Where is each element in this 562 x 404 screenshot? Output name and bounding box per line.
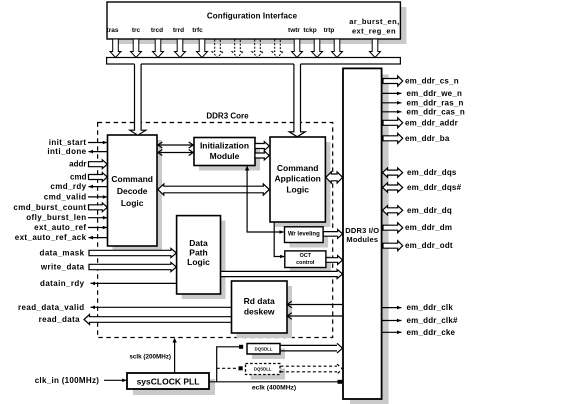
svg-text:Logic: Logic xyxy=(286,184,309,194)
Rd data deskew box xyxy=(232,281,288,333)
svg-text:sysCLOCK PLL: sysCLOCK PLL xyxy=(137,376,200,386)
svg-text:trc: trc xyxy=(132,27,141,34)
svg-text:Wr leveling: Wr leveling xyxy=(288,232,320,238)
svg-text:deskew: deskew xyxy=(244,307,275,317)
arrow em_ddr_dqs xyxy=(383,168,403,177)
svg-text:ext_reg_en: ext_reg_en xyxy=(352,26,396,35)
Wr leveling box shadow xyxy=(290,232,329,248)
svg-text:Initialization: Initialization xyxy=(200,141,249,151)
bus Command Application to DDR3 I/O Modules xyxy=(326,172,343,183)
svg-text:Command: Command xyxy=(111,174,153,184)
svg-text:control: control xyxy=(296,260,315,266)
bus cmd_burst_count xyxy=(89,203,108,212)
arrow em_ddr_cke xyxy=(382,331,402,333)
svg-text:trtp: trtp xyxy=(324,27,335,34)
svg-text:trcd: trcd xyxy=(151,27,163,34)
svg-text:em_ddr_cas_n: em_ddr_cas_n xyxy=(407,107,465,116)
bus wire to Command Decode Logic xyxy=(130,62,146,135)
Configuration Interface box shadow xyxy=(113,7,406,44)
bus DQSDLL to DDR3 I/O Modules xyxy=(281,343,343,353)
wire Command Decode to Initialization Module upper xyxy=(158,144,193,146)
OCT control box xyxy=(285,251,326,268)
svg-text:em_ddr_we_n: em_ddr_we_n xyxy=(407,89,463,98)
bus wire to Command Application Logic xyxy=(289,62,305,137)
svg-text:em_ddr_odt: em_ddr_odt xyxy=(405,241,453,250)
config arrow (solid) #5 xyxy=(197,40,208,58)
config arrow (solid) #2 xyxy=(131,40,142,58)
config arrow (solid) #6 xyxy=(292,40,303,58)
arrow em_ddr_dqs# xyxy=(383,183,403,192)
arrow em_ddr_we_n xyxy=(382,92,402,94)
arrow em_ddr_clk# xyxy=(382,320,402,322)
svg-text:ar_burst_en,: ar_burst_en, xyxy=(349,17,399,26)
svg-text:clk_in (100MHz): clk_in (100MHz) xyxy=(35,376,100,385)
Wr leveling box xyxy=(285,227,324,243)
arrow em_ddr_cas_n xyxy=(382,111,402,113)
read line DDR3 I/O to Rd data deskew upper xyxy=(287,304,343,306)
svg-text:Decode: Decode xyxy=(117,186,148,196)
Rd data deskew box shadow xyxy=(237,286,293,338)
svg-text:em_ddr_ras_n: em_ddr_ras_n xyxy=(407,98,464,107)
svg-text:tckp: tckp xyxy=(303,27,316,34)
svg-text:ofly_burst_len: ofly_burst_len xyxy=(26,213,86,222)
svg-text:Modules: Modules xyxy=(346,235,378,244)
config arrow (solid) #4 xyxy=(175,40,186,58)
DDR3 I/O Modules box shadow xyxy=(350,74,389,404)
svg-text:write_data: write_data xyxy=(40,263,85,272)
bus cmd xyxy=(89,173,108,182)
bus data_mask xyxy=(89,248,176,257)
svg-text:em_ddr_dqs#: em_ddr_dqs# xyxy=(407,183,462,192)
arrow em_ddr_addr xyxy=(383,118,403,128)
configuration bus bar xyxy=(107,58,401,65)
svg-text:DDR3 Core: DDR3 Core xyxy=(206,112,249,121)
svg-text:Module: Module xyxy=(210,151,240,161)
svg-text:data_mask: data_mask xyxy=(40,249,85,258)
config arrow (dashed) #1 xyxy=(212,40,223,58)
svg-text:twtr: twtr xyxy=(288,27,300,34)
Configuration Interface box xyxy=(107,2,400,39)
arrow inti_done xyxy=(89,151,108,153)
svg-text:ext_auto_ref: ext_auto_ref xyxy=(34,223,86,232)
svg-text:datain_rdy: datain_rdy xyxy=(40,279,85,288)
bus write_data xyxy=(89,262,176,271)
svg-text:sclk (200MHz): sclk (200MHz) xyxy=(129,354,171,361)
arrow datain_rdy xyxy=(91,282,177,284)
arrow ext_auto_ref xyxy=(88,227,107,229)
svg-text:DQSDLL: DQSDLL xyxy=(254,367,272,372)
Data Path Logic box shadow xyxy=(182,221,226,299)
wire Command Application to OCT control xyxy=(274,222,284,257)
bus Initialization Module to Command Application upper xyxy=(255,142,269,151)
Command Decode Logic box shadow xyxy=(113,140,163,251)
Command Decode Logic box xyxy=(108,135,158,246)
clock branch dashed wire to DQSDLL 2 xyxy=(217,367,238,369)
bus read_data xyxy=(84,315,231,325)
arrow read_data_valid xyxy=(91,306,232,308)
config arrow (solid) #3 xyxy=(153,40,164,58)
Command Application Logic box shadow xyxy=(275,142,330,227)
svg-text:em_ddr_cs_n: em_ddr_cs_n xyxy=(405,77,459,86)
config arrow (solid) #7 xyxy=(312,40,323,58)
svg-text:inti_done: inti_done xyxy=(47,147,86,156)
svg-text:cmd_burst_count: cmd_burst_count xyxy=(13,203,86,212)
DQSDLL box shadow xyxy=(252,349,285,360)
svg-text:OCT: OCT xyxy=(300,253,312,259)
wire Initialization Module to Wr leveling xyxy=(247,166,284,232)
svg-text:em_ddr_cke: em_ddr_cke xyxy=(407,328,456,337)
DQSDLL 2 dashed box shadow xyxy=(251,369,286,380)
DDR3 Core dashed boundary xyxy=(98,123,333,338)
arrow em_ddr_odt xyxy=(383,241,403,251)
write data bus Data Path Logic to DDR3 I/O Modules xyxy=(221,269,343,278)
svg-text:Application: Application xyxy=(275,174,321,184)
svg-text:read_data: read_data xyxy=(39,315,81,324)
svg-text:Configuration Interface: Configuration Interface xyxy=(207,12,298,21)
svg-text:init_start: init_start xyxy=(49,138,87,147)
bus Wr leveling to DDR3 I/O Modules xyxy=(323,230,342,239)
Data Path Logic box xyxy=(177,216,221,294)
svg-text:trrd: trrd xyxy=(173,27,184,34)
DQSDLL 2 dashed box xyxy=(246,364,281,375)
sysCLOCK PLL box xyxy=(127,373,209,389)
arrow em_ddr_ras_n xyxy=(382,102,402,104)
config arrow (solid) #9 xyxy=(370,40,381,58)
arrow clk_in xyxy=(104,379,127,381)
OCT control box shadow xyxy=(290,256,331,273)
bus Command Decode to Command Application xyxy=(158,184,269,195)
bus Initialization Module to Command Application lower xyxy=(255,151,269,160)
Initialization Module box shadow xyxy=(199,143,260,171)
arrow cmd_rdy xyxy=(89,186,108,188)
svg-text:cmd_rdy: cmd_rdy xyxy=(50,182,86,191)
config arrow (solid) #1 xyxy=(110,40,121,58)
svg-text:Logic: Logic xyxy=(187,257,210,267)
config arrow (solid) #8 xyxy=(332,40,343,58)
clock branch vertical wire xyxy=(217,347,240,382)
Command Application Logic box xyxy=(270,137,325,222)
svg-text:cmd: cmd xyxy=(70,173,87,182)
arrow em_ddr_dm xyxy=(383,223,403,233)
svg-text:em_ddr_clk#: em_ddr_clk# xyxy=(407,316,458,325)
svg-text:Command: Command xyxy=(277,163,319,173)
svg-text:ext_auto_ref_ack: ext_auto_ref_ack xyxy=(15,233,87,242)
svg-text:cmd_valid: cmd_valid xyxy=(44,192,87,201)
svg-text:Path: Path xyxy=(189,248,207,258)
bus addr xyxy=(89,160,108,169)
config arrow (dashed) #4 xyxy=(272,40,283,58)
svg-text:eclk (400MHz): eclk (400MHz) xyxy=(252,384,296,391)
svg-text:read_data_valid: read_data_valid xyxy=(18,303,84,312)
svg-text:DQSDLL: DQSDLL xyxy=(255,346,273,351)
svg-text:trfc: trfc xyxy=(192,27,203,34)
svg-text:em_ddr_clk: em_ddr_clk xyxy=(407,303,454,312)
sclk wire PLL to DDR3 Core xyxy=(174,340,176,374)
svg-text:em_ddr_ba: em_ddr_ba xyxy=(405,134,450,143)
svg-text:Logic: Logic xyxy=(121,198,144,208)
dashed bus DQSDLL 2 to DDR3 I/O Modules xyxy=(281,364,343,374)
read line DDR3 I/O to Rd data deskew lower xyxy=(287,315,343,317)
svg-text:em_ddr_dq: em_ddr_dq xyxy=(407,206,452,215)
arrow em_ddr_cs_n xyxy=(383,76,403,86)
sysCLOCK PLL box shadow xyxy=(133,379,215,395)
DQSDLL box xyxy=(247,344,280,355)
svg-text:Data: Data xyxy=(189,238,208,248)
DDR3 I/O Modules box xyxy=(343,68,382,399)
svg-text:em_ddr_dm: em_ddr_dm xyxy=(405,223,452,232)
arrow cmd_valid xyxy=(88,196,107,198)
arrow ofly_burst_len xyxy=(88,217,107,219)
svg-text:em_ddr_dqs: em_ddr_dqs xyxy=(407,168,457,177)
arrow ext_auto_ref_ack xyxy=(89,237,108,239)
config arrow (dashed) #3 xyxy=(252,40,263,58)
svg-text:em_ddr_addr: em_ddr_addr xyxy=(405,118,458,127)
arrow init_start xyxy=(88,142,107,144)
config arrow (dashed) #2 xyxy=(232,40,243,58)
arrow em_ddr_dq xyxy=(383,206,403,215)
Initialization Module box xyxy=(194,138,255,166)
arrow em_ddr_ba xyxy=(383,133,403,143)
bus OCT control to DDR3 I/O Modules xyxy=(326,256,343,265)
svg-text:addr: addr xyxy=(69,160,86,169)
svg-text:tras: tras xyxy=(107,27,119,34)
wire Command Decode to Initialization Module lower xyxy=(158,152,193,154)
svg-text:DDR3 I/O: DDR3 I/O xyxy=(345,226,379,235)
svg-text:Rd data: Rd data xyxy=(244,296,275,306)
eclk wire PLL to DDR3 I/O Modules xyxy=(209,381,343,383)
arrow em_ddr_clk xyxy=(382,307,402,309)
